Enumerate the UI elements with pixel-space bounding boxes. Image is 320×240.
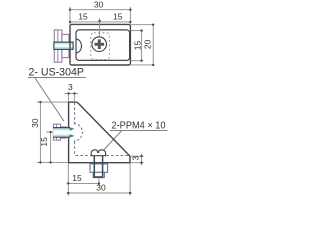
T-nut (bottom screw)	[90, 164, 108, 178]
bracket outer rect (top view)	[70, 24, 130, 65]
screw shaft (bottom view): teal thread bands	[53, 128, 70, 138]
screw mid seam	[54, 131, 66, 133]
screw shaft body (white)	[53, 128, 70, 138]
screw shaft outline (top view)	[54, 42, 73, 49]
boss ellipse on inner-left edge	[76, 39, 81, 53]
dimension 30 (left)	[30, 101, 42, 164]
phillips cross recess	[95, 39, 105, 49]
dimension 15 (top view right)	[132, 29, 142, 62]
svg-text:30: 30	[96, 183, 106, 193]
svg-text:15: 15	[132, 41, 142, 51]
svg-text:15: 15	[72, 173, 82, 183]
svg-text:15: 15	[39, 137, 49, 147]
dimension 30 (top)	[69, 0, 132, 11]
svg-text:15: 15	[78, 11, 88, 21]
dimension 15 (left)	[39, 131, 52, 164]
label 2-PPM4 x 10	[104, 121, 168, 150]
shaft outline (navy)	[53, 128, 70, 138]
phillips screw head circle (top view)	[92, 37, 107, 52]
screw shank (navy)	[94, 156, 102, 177]
pan head screw dome (bottom view)	[91, 150, 105, 156]
hidden hole arc (dashed) at left screw	[74, 124, 83, 141]
bracket inner rounded rect (top view)	[76, 30, 130, 61]
label 2- US-304P	[28, 67, 86, 122]
dim extension lines (top view right)	[131, 25, 154, 65]
thumb screw head (top view, left)	[54, 30, 69, 62]
dimension 3 (right of bottom view)	[130, 154, 143, 166]
dimension 30 (bottom)	[67, 183, 132, 195]
dim extension lines (top view top)	[70, 7, 130, 37]
shank tip	[94, 176, 103, 178]
hidden nut (dashed, top view)	[91, 33, 110, 60]
svg-text:3: 3	[130, 156, 140, 161]
screw shaft fill (top view)	[54, 42, 73, 49]
shaft tip arrows (teal)	[70, 127, 75, 137]
dimension 20 (top view right)	[143, 24, 155, 67]
svg-text:20: 20	[143, 39, 153, 49]
triangle bracket body	[69, 102, 130, 163]
extension line to screw center (left)	[46, 131, 53, 133]
US screw head (bottom view, left)	[53, 124, 66, 140]
svg-text:3: 3	[68, 82, 73, 92]
bottom extension lines	[68, 163, 130, 195]
hidden inner-surface line (horizontal, dashed)	[76, 155, 129, 157]
left extension lines (bottom view)	[37, 102, 68, 162]
dimension 3 (top of bottom view)	[65, 82, 78, 101]
svg-text:2- US-304P: 2- US-304P	[29, 67, 85, 79]
dimension 15 15 (top)	[69, 11, 132, 23]
dimension 15 (bottom)	[67, 173, 101, 184]
svg-text:30: 30	[30, 118, 40, 128]
hidden inner-surface line (vertical, dashed)	[74, 103, 76, 156]
svg-text:15: 15	[113, 11, 123, 21]
svg-text:30: 30	[94, 0, 104, 9]
svg-text:2-PPM4 × 10: 2-PPM4 × 10	[112, 121, 166, 132]
